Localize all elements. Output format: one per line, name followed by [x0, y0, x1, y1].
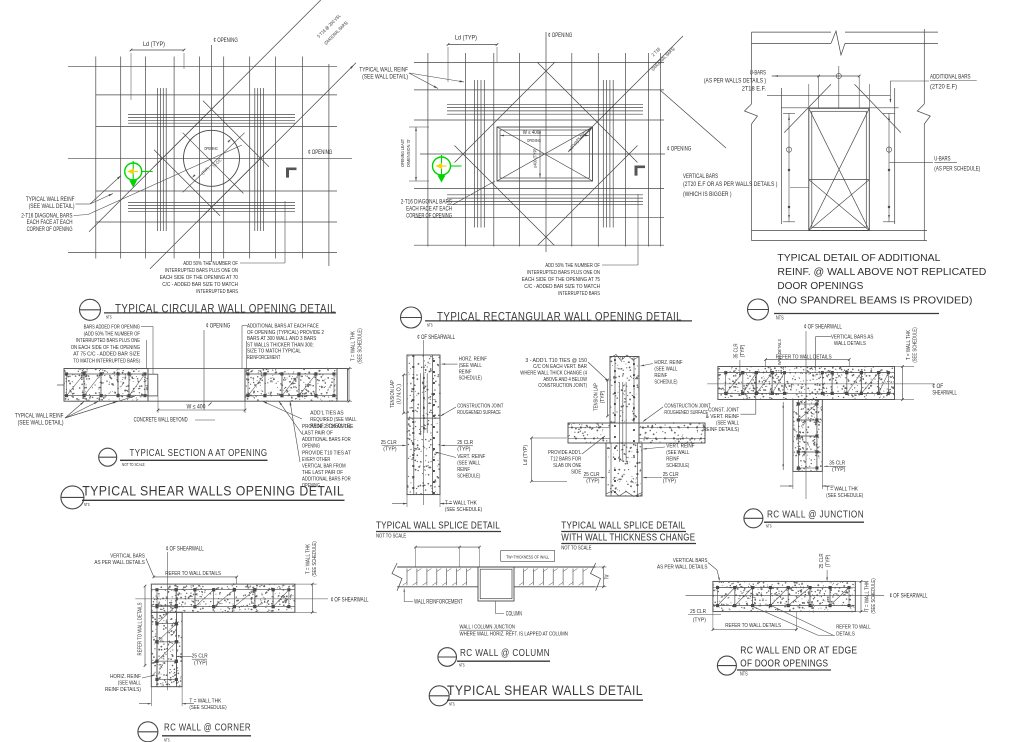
- svg-text:NTS: NTS: [427, 322, 433, 327]
- svg-text:≤400 (TYP): ≤400 (TYP): [533, 148, 538, 168]
- svg-text:TYPICAL WALL REINF: TYPICAL WALL REINF: [359, 68, 408, 74]
- svg-text:CONSTRUCTION JOINT: CONSTRUCTION JOINT: [457, 404, 504, 410]
- svg-text:¢ OPENING: ¢ OPENING: [206, 324, 231, 330]
- svg-text:¢ OPENING: ¢ OPENING: [308, 150, 333, 156]
- svg-text:T = WALL THK: T = WALL THK: [865, 581, 871, 611]
- svg-text:REFER TO WALL: REFER TO WALL: [836, 625, 871, 631]
- svg-text:25 CLR: 25 CLR: [819, 553, 825, 568]
- svg-text:(TYP): (TYP): [663, 479, 676, 485]
- svg-text:CORNER OF OPENING: CORNER OF OPENING: [27, 227, 73, 233]
- svg-text:REINF. @ WALL ABOVE NOT REPLIC: REINF. @ WALL ABOVE NOT REPLICATED: [777, 266, 986, 278]
- svg-text:VERTICAL BARS: VERTICAL BARS: [110, 554, 145, 560]
- svg-text:RC WALL @ JUNCTION: RC WALL @ JUNCTION: [767, 508, 864, 520]
- svg-text:C/C - ADDED BAR SIZE TO MATCH: C/C - ADDED BAR SIZE TO MATCH: [162, 282, 238, 288]
- svg-text:TYPICAL WALL SPLICE DETAIL: TYPICAL WALL SPLICE DETAIL: [376, 520, 500, 532]
- svg-text:(U.N.O.): (U.N.O.): [397, 384, 403, 404]
- svg-text:VERTICAL BARS AS: VERTICAL BARS AS: [831, 335, 874, 341]
- svg-text:3 - ADD’L T10 TIES @ 150: 3 - ADD’L T10 TIES @ 150: [525, 358, 587, 364]
- svg-text:T12 BARS FOR: T12 BARS FOR: [551, 457, 582, 463]
- svg-text:(SEE WALL: (SEE WALL: [716, 421, 739, 427]
- svg-text:ABOVE AND 4 BELOW: ABOVE AND 4 BELOW: [543, 377, 587, 383]
- svg-text:2T18 E.F.: 2T18 E.F.: [742, 87, 767, 93]
- svg-text:SIDE: SIDE: [571, 470, 581, 476]
- svg-text:CONST. JOINT: CONST. JOINT: [708, 408, 739, 414]
- svg-text:ROUGHENED SURFACE: ROUGHENED SURFACE: [664, 410, 708, 416]
- svg-text:C/C - ADDED BAR SIZE TO MATCH: C/C - ADDED BAR SIZE TO MATCH: [524, 284, 600, 290]
- svg-text:(TYP): (TYP): [826, 555, 832, 568]
- svg-text:REINF: REINF: [654, 373, 667, 379]
- svg-text:(SEE WALL: (SEE WALL: [118, 681, 141, 687]
- svg-text:AT 75 C/C - ADDED BAR SIZE: AT 75 C/C - ADDED BAR SIZE: [73, 352, 140, 358]
- svg-text:25 CLR: 25 CLR: [381, 440, 397, 446]
- svg-text:(AS PER SCHEDULE): (AS PER SCHEDULE): [934, 167, 980, 173]
- svg-text:CONSTRUCTION JOINT: CONSTRUCTION JOINT: [664, 404, 711, 410]
- svg-text:¢ OF: ¢ OF: [932, 384, 943, 390]
- svg-text:HORIZ. REINF: HORIZ. REINF: [110, 674, 141, 680]
- svg-text:INTERRUPTED BARS: INTERRUPTED BARS: [196, 289, 238, 295]
- svg-text:NTS: NTS: [740, 672, 748, 678]
- svg-text:REINFORCEMENT: REINFORCEMENT: [247, 355, 281, 361]
- svg-text:INTERRUPTED BARS: INTERRUPTED BARS: [558, 291, 600, 297]
- svg-text:TYPICAL WALL REINF: TYPICAL WALL REINF: [15, 414, 64, 420]
- svg-text:WHERE WALL THICK CHANGE (4: WHERE WALL THICK CHANGE (4: [520, 371, 587, 377]
- svg-text:¢ OF SHEARWALL: ¢ OF SHEARWALL: [331, 598, 369, 604]
- svg-text:SLAB ON ONE: SLAB ON ONE: [553, 463, 581, 469]
- svg-text:NOT TO SCALE: NOT TO SCALE: [376, 534, 406, 540]
- svg-text:SCHEDULE): SCHEDULE): [654, 380, 677, 386]
- svg-text:(WHICH IS BIGGER ): (WHICH IS BIGGER ): [683, 192, 732, 198]
- svg-text:SHEARWALL: SHEARWALL: [932, 391, 957, 397]
- svg-text:ON EACH SIDE OF THE OPENING: ON EACH SIDE OF THE OPENING: [71, 345, 140, 351]
- svg-text:RC WALL @ CORNER: RC WALL @ CORNER: [164, 722, 251, 734]
- svg-text:25 CLR: 25 CLR: [192, 654, 208, 660]
- svg-text:VERTICAL BARS: VERTICAL BARS: [673, 558, 708, 564]
- svg-text:CONCRETE WALL BEYOND: CONCRETE WALL BEYOND: [134, 418, 188, 424]
- svg-text:WHERE WALL HORIZ. REFT. IS LAP: WHERE WALL HORIZ. REFT. IS LAPPED AT COL…: [460, 632, 568, 638]
- svg-text:REINF DETAILS): REINF DETAILS): [105, 687, 141, 693]
- svg-text:OPENING: OPENING: [204, 146, 218, 151]
- svg-text:REFER TO WALL DETAILS: REFER TO WALL DETAILS: [138, 602, 144, 655]
- svg-text:(SEE WALL: (SEE WALL: [457, 461, 480, 467]
- svg-text:INTERRUPTED BARS PLUS ONE: INTERRUPTED BARS PLUS ONE: [76, 338, 140, 344]
- svg-text:EVERY OTHER: EVERY OTHER: [302, 457, 330, 463]
- svg-text:(TYP): (TYP): [693, 618, 706, 624]
- svg-text:AS PER WALL DETAILS: AS PER WALL DETAILS: [657, 565, 707, 571]
- svg-text:OF DOOR OPENINGS: OF DOOR OPENINGS: [740, 658, 828, 670]
- svg-text:¢ OF SHEARWALL: ¢ OF SHEARWALL: [166, 546, 204, 552]
- svg-text:PROVIDE 2 T16 AS THE: PROVIDE 2 T16 AS THE: [302, 424, 353, 430]
- svg-text:BARS ADDED FOR OPENING: BARS ADDED FOR OPENING: [84, 325, 140, 331]
- svg-text:(SEE SCHEDULE): (SEE SCHEDULE): [826, 493, 863, 499]
- svg-text:T = WALL THK: T = WALL THK: [351, 331, 357, 361]
- svg-text:REQUIRED (SEE WALL: REQUIRED (SEE WALL: [310, 417, 356, 423]
- svg-text:¢ OF SHEARWALL: ¢ OF SHEARWALL: [890, 594, 928, 600]
- svg-text:EACH FACE AT EACH: EACH FACE AT EACH: [27, 220, 73, 226]
- svg-text:RC WALL @ COLUMN: RC WALL @ COLUMN: [460, 647, 550, 659]
- svg-text:SCHEDULE): SCHEDULE): [666, 463, 689, 469]
- svg-text:(2T20 E.F OR AS PER WALLS DETA: (2T20 E.F OR AS PER WALLS DETAILS ): [683, 182, 778, 188]
- svg-text:DIMENSION 'D': DIMENSION 'D': [406, 139, 412, 167]
- svg-text:REINF: REINF: [666, 457, 679, 463]
- svg-text:OPENING: OPENING: [302, 444, 320, 450]
- svg-text:TENSION LAP: TENSION LAP: [594, 383, 600, 411]
- svg-text:(SEE WALL DETAIL): (SEE WALL DETAIL): [362, 75, 408, 81]
- svg-text:C/C ON EACH VERT. BAR: C/C ON EACH VERT. BAR: [533, 364, 587, 370]
- svg-text:CORNER OF OPENING: CORNER OF OPENING: [406, 214, 452, 220]
- svg-text:REFER TO WALL DETAILS: REFER TO WALL DETAILS: [725, 623, 781, 629]
- svg-text:TW=THICKNESS OF WALL: TW=THICKNESS OF WALL: [506, 554, 549, 560]
- svg-text:NTS: NTS: [164, 737, 170, 742]
- svg-text:Ld (TYP): Ld (TYP): [455, 35, 477, 42]
- svg-text:REFER TO WALL DETAILS: REFER TO WALL DETAILS: [165, 571, 221, 577]
- svg-text:(TYP): (TYP): [194, 661, 207, 667]
- svg-text:TYPICAL SHEAR WALLS OPENING DE: TYPICAL SHEAR WALLS OPENING DETAIL: [82, 483, 344, 499]
- svg-text:INTERRUPTED BARS PLUS ONE ON: INTERRUPTED BARS PLUS ONE ON: [527, 270, 600, 276]
- svg-text:REINF: REINF: [459, 369, 472, 375]
- svg-text:OPENING: OPENING: [527, 138, 541, 143]
- svg-text:NTS: NTS: [84, 502, 90, 507]
- svg-text:CONSTRUCTION JOINT): CONSTRUCTION JOINT): [538, 383, 587, 389]
- svg-text:BARS AT 300 WALL AND 3 BARS: BARS AT 300 WALL AND 3 BARS: [247, 336, 316, 342]
- svg-text:¢ OPENING: ¢ OPENING: [214, 38, 239, 44]
- svg-text:VERT. REINF: VERT. REINF: [457, 454, 486, 460]
- svg-text:(TYP): (TYP): [832, 467, 845, 473]
- svg-text:DOOR OPENINGS: DOOR OPENINGS: [777, 280, 863, 292]
- svg-text:NTS: NTS: [106, 314, 112, 319]
- svg-text:U-BARS: U-BARS: [934, 157, 950, 163]
- svg-text:ADD 50% THE NUMBER OF: ADD 50% THE NUMBER OF: [183, 261, 238, 267]
- svg-text:AS PER WALL DETAILS: AS PER WALL DETAILS: [94, 560, 144, 566]
- svg-text:COLUMN: COLUMN: [506, 612, 522, 618]
- svg-text:TW: TW: [605, 575, 611, 580]
- svg-text:NTS: NTS: [776, 316, 784, 322]
- svg-text:PROVIDE ADD’L: PROVIDE ADD’L: [548, 450, 581, 456]
- svg-text:(SEE SCHEDULE): (SEE SCHEDULE): [871, 578, 877, 613]
- svg-text:(SEE SCHEDULE): (SEE SCHEDULE): [445, 507, 482, 513]
- svg-text:NOT TO SCALE: NOT TO SCALE: [561, 546, 591, 552]
- svg-text:(TYP): (TYP): [586, 479, 599, 485]
- svg-text:PROVIDE T10 TIES AT: PROVIDE T10 TIES AT: [302, 451, 351, 457]
- svg-text:(TYP): (TYP): [383, 446, 396, 452]
- svg-text:35 CLR: 35 CLR: [734, 343, 740, 358]
- svg-text:VERTICAL BARS: VERTICAL BARS: [683, 174, 718, 180]
- svg-text:NTS: NTS: [766, 524, 772, 529]
- svg-text:HORZ. REINF: HORZ. REINF: [459, 357, 488, 363]
- svg-text:TO MATCH INTERRUPTED BARS): TO MATCH INTERRUPTED BARS): [73, 359, 140, 365]
- svg-text:TYPICAL CIRCULAR WALL OPENING: TYPICAL CIRCULAR WALL OPENING DETAIL: [115, 304, 336, 316]
- svg-text:T = WALL THK: T = WALL THK: [189, 699, 221, 705]
- svg-text:(SEE WALL: (SEE WALL: [654, 367, 677, 373]
- svg-text:(2T20 E.F): (2T20 E.F): [930, 85, 957, 91]
- svg-text:2-T16 DIAGONAL BARS: 2-T16 DIAGONAL BARS: [401, 200, 452, 206]
- svg-text:(ADD 50% THE NUMBER OF: (ADD 50% THE NUMBER OF: [84, 331, 141, 337]
- svg-text:(TYP): (TYP): [740, 345, 746, 358]
- svg-text:25 CLR: 25 CLR: [457, 440, 473, 446]
- svg-text:WALL / COLUMN JUNCTION: WALL / COLUMN JUNCTION: [460, 625, 515, 631]
- svg-text:WALL DETAILS: WALL DETAILS: [834, 341, 866, 347]
- svg-text:T = WALL THK: T = WALL THK: [826, 487, 858, 493]
- svg-text:¢ OF SHEARWALL: ¢ OF SHEARWALL: [417, 335, 455, 341]
- svg-text:ADD’L TIES AS: ADD’L TIES AS: [310, 411, 343, 417]
- svg-text:Ld (TYP): Ld (TYP): [143, 41, 165, 48]
- svg-text:(AS PER WALLS DETAILS ): (AS PER WALLS DETAILS ): [704, 79, 766, 85]
- svg-text:DETAILS: DETAILS: [836, 632, 855, 638]
- svg-text:WALL DETAILS: WALL DETAILS: [777, 339, 783, 365]
- svg-text:WITH WALL THICKNESS CHANGE: WITH WALL THICKNESS CHANGE: [561, 532, 695, 544]
- svg-text:(SEE SCHEDULE): (SEE SCHEDULE): [358, 328, 364, 363]
- svg-text:OF OPENING (TYPICAL) PROVIDE 2: OF OPENING (TYPICAL) PROVIDE 2: [247, 330, 324, 336]
- svg-text:REINF: REINF: [457, 467, 470, 473]
- svg-text:(NO SPANDREL BEAMS IS PROVIDED: (NO SPANDREL BEAMS IS PROVIDED): [777, 295, 972, 307]
- svg-text:VERTICAL BAR FROM: VERTICAL BAR FROM: [302, 464, 346, 470]
- svg-text:SCHEDULE): SCHEDULE): [459, 376, 482, 382]
- svg-text:Ld (TYP): Ld (TYP): [523, 445, 529, 465]
- svg-text:T = WALL THK: T = WALL THK: [306, 544, 312, 574]
- svg-text:INTERRUPTED BARS PLUS ONE ON: INTERRUPTED BARS PLUS ONE ON: [165, 268, 238, 274]
- svg-text:NOT TO SCALE: NOT TO SCALE: [122, 462, 145, 467]
- svg-text:(SEE WALL DETAIL): (SEE WALL DETAIL): [18, 421, 64, 427]
- svg-text:ADDITIONAL BARS FOR: ADDITIONAL BARS FOR: [302, 437, 351, 443]
- svg-text:& VERT. REINF: & VERT. REINF: [706, 414, 740, 420]
- svg-text:TENSION LAP: TENSION LAP: [390, 380, 396, 408]
- svg-text:(TYP): (TYP): [457, 446, 470, 452]
- svg-text:NTS: NTS: [459, 663, 465, 668]
- svg-text:OPENING LEAST: OPENING LEAST: [400, 139, 406, 167]
- svg-text:U-BARS: U-BARS: [750, 71, 766, 77]
- svg-text:2-T16 DIAGONAL BARS: 2-T16 DIAGONAL BARS: [21, 213, 72, 219]
- svg-text:(SEE WALL DETAIL): (SEE WALL DETAIL): [29, 204, 75, 210]
- svg-text:TYPICAL SECTION A AT OPENING: TYPICAL SECTION A AT OPENING: [130, 447, 268, 459]
- svg-text:¢ OF SHEARWALL: ¢ OF SHEARWALL: [804, 325, 842, 331]
- svg-text:HORZ. REINF: HORZ. REINF: [654, 360, 683, 366]
- svg-text:ADDITIONAL BARS: ADDITIONAL BARS: [930, 75, 971, 81]
- svg-text:¢ OPENING: ¢ OPENING: [548, 33, 573, 39]
- svg-text:(SEE WALL: (SEE WALL: [666, 450, 689, 456]
- svg-text:25 CLR: 25 CLR: [584, 472, 600, 478]
- svg-text:(SEE WALL: (SEE WALL: [459, 363, 482, 369]
- svg-text:ADD 50% THE NUMBER OF: ADD 50% THE NUMBER OF: [545, 263, 600, 269]
- svg-text:(SEE SCHEDULE): (SEE SCHEDULE): [189, 705, 226, 711]
- svg-text:(SEE SCHEDULE): (SEE SCHEDULE): [913, 327, 919, 362]
- svg-text:RC WALL END OR AT EDGE: RC WALL END OR AT EDGE: [740, 645, 857, 657]
- svg-text:ADDITIONAL BARS AT EACH FACE: ADDITIONAL BARS AT EACH FACE: [247, 324, 319, 330]
- svg-text:TYPICAL SHEAR WALLS DETAIL: TYPICAL SHEAR WALLS DETAIL: [447, 682, 643, 698]
- svg-text:LAST PAIR OF: LAST PAIR OF: [302, 431, 333, 437]
- svg-text:NTS: NTS: [449, 702, 455, 707]
- svg-text:(SEE SCHEDULE): (SEE SCHEDULE): [312, 541, 318, 576]
- svg-text:TYPICAL DETAIL OF ADDITIONAL: TYPICAL DETAIL OF ADDITIONAL: [777, 252, 940, 264]
- svg-text:REINF DETAILS): REINF DETAILS): [703, 427, 739, 433]
- svg-text:EACH FACE AT EACH: EACH FACE AT EACH: [406, 207, 452, 213]
- svg-text:W ≤ 400: W ≤ 400: [523, 130, 539, 136]
- svg-text:T = WALL THK: T = WALL THK: [445, 501, 477, 507]
- svg-text:ROUGHENED SURFACE: ROUGHENED SURFACE: [457, 410, 501, 416]
- svg-text:¢ OPENING: ¢ OPENING: [667, 147, 692, 153]
- svg-text:THE LAST PAIR OF: THE LAST PAIR OF: [302, 470, 343, 476]
- svg-text:35 CLR: 35 CLR: [829, 461, 845, 467]
- svg-text:25 CLR: 25 CLR: [663, 472, 679, 478]
- svg-text:TYPICAL WALL REINF: TYPICAL WALL REINF: [26, 197, 75, 203]
- svg-text:TYPICAL WALL SPLICE DETAIL: TYPICAL WALL SPLICE DETAIL: [561, 520, 685, 532]
- svg-text:SIZE TO MATCH TYPICAL: SIZE TO MATCH TYPICAL: [247, 349, 301, 355]
- svg-text:25 CLR: 25 CLR: [690, 609, 706, 615]
- svg-text:(TYP): (TYP): [600, 391, 606, 404]
- svg-text:W ≤ 400: W ≤ 400: [187, 405, 206, 411]
- svg-text:T = WALL THK: T = WALL THK: [906, 330, 912, 360]
- svg-text:VERT. REINF: VERT. REINF: [666, 444, 695, 450]
- svg-text:EACH SIDE OF THE OPENING AT 75: EACH SIDE OF THE OPENING AT 75: [522, 277, 600, 283]
- svg-text:SCHEDULE): SCHEDULE): [457, 474, 480, 480]
- svg-text:ST WALLS THICKER THAN 300;: ST WALLS THICKER THAN 300;: [247, 342, 314, 348]
- svg-text:EACH SIDE OF THE OPENING AT 70: EACH SIDE OF THE OPENING AT 70: [160, 275, 238, 281]
- svg-text:WALL REINFORCEMENT: WALL REINFORCEMENT: [414, 599, 463, 605]
